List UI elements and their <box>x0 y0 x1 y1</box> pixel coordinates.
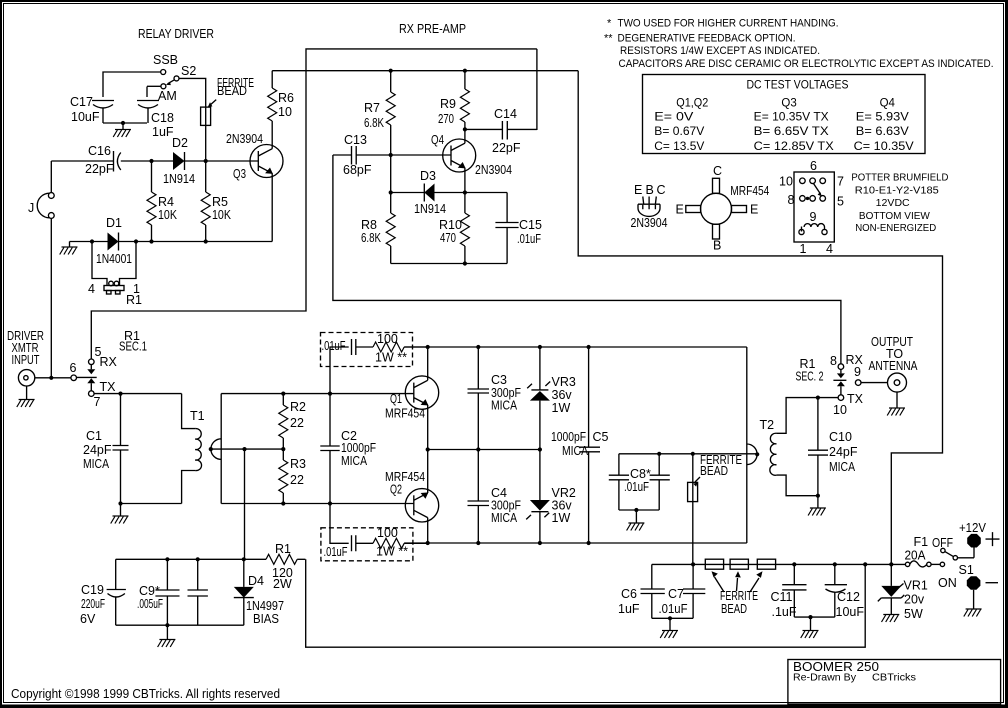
svg-text:2W: 2W <box>273 577 292 591</box>
svg-text:R9: R9 <box>440 97 456 111</box>
svg-text:2N3904: 2N3904 <box>475 163 512 177</box>
svg-text:B= 6.63V: B= 6.63V <box>856 126 909 138</box>
jack J <box>28 193 54 219</box>
svg-text:D3: D3 <box>420 169 436 183</box>
diode D3 1N914 <box>389 169 508 216</box>
wire input to pin 6 <box>35 376 71 380</box>
bias feed wire to power rail <box>306 559 866 647</box>
svg-text:Q1,Q2: Q1,Q2 <box>676 98 708 110</box>
svg-text:20A: 20A <box>905 549 927 563</box>
svg-text:1000pF: 1000pF <box>551 430 586 444</box>
svg-text:RX PRE-AMP: RX PRE-AMP <box>399 22 466 36</box>
svg-text:36v: 36v <box>552 388 573 402</box>
wire C17/C18 to ground <box>103 121 147 130</box>
svg-text:E: E <box>634 183 642 197</box>
svg-text:100: 100 <box>377 332 398 346</box>
svg-text:MICA: MICA <box>341 454 368 468</box>
zener VR2 36v 1W <box>526 450 576 544</box>
zener VR3 36v 1W <box>527 347 576 450</box>
power rail <box>652 562 906 566</box>
svg-text:R8: R8 <box>361 218 377 232</box>
wire C14 up the right edge <box>536 49 538 130</box>
svg-text:AM: AM <box>158 89 177 103</box>
svg-text:+12V: +12V <box>959 521 987 535</box>
wire RX box top and left to relay pin 5 <box>91 49 537 359</box>
svg-text:S2: S2 <box>181 64 196 78</box>
svg-text:6: 6 <box>810 159 817 173</box>
capacitor C2 1000pF MICA <box>320 394 376 504</box>
svg-text:6.8K: 6.8K <box>361 231 382 245</box>
svg-text:Q4: Q4 <box>431 133 444 147</box>
svg-text:22pF: 22pF <box>85 162 114 176</box>
bias bottom wire <box>116 623 244 639</box>
svg-text:C: C <box>657 183 666 197</box>
resistor R10 470 <box>439 193 469 264</box>
capacitor C3 300pF MICA <box>468 347 522 450</box>
svg-text:C18: C18 <box>151 111 174 125</box>
relay pinout box (Potter Brumfield bottom view) <box>779 159 844 256</box>
svg-text:BEAD: BEAD <box>700 464 728 478</box>
svg-text:.01uF: .01uF <box>322 339 346 353</box>
capacitor C9 second (unlabeled) <box>188 559 208 625</box>
svg-text:MICA: MICA <box>491 399 518 413</box>
capacitor C4 300pF MICA <box>468 450 522 544</box>
svg-text:100: 100 <box>377 526 398 540</box>
svg-text:C7: C7 <box>668 587 684 601</box>
svg-text:R5: R5 <box>212 195 228 209</box>
svg-text:C1: C1 <box>86 429 102 443</box>
svg-text:*: * <box>607 18 612 30</box>
svg-text:MICA: MICA <box>829 460 856 474</box>
svg-text:1N914: 1N914 <box>163 172 195 186</box>
ground (minus terminal) <box>964 609 982 617</box>
svg-text:20v: 20v <box>904 593 925 607</box>
svg-text:1N4997: 1N4997 <box>246 599 284 613</box>
table header row <box>676 98 895 110</box>
svg-text:C: C <box>713 164 722 178</box>
collector rail (top) <box>404 345 747 349</box>
svg-text:220uF: 220uF <box>81 597 105 611</box>
relay R1 SEC.1 contacts <box>70 329 148 409</box>
wire C16 left to jack J <box>51 161 113 193</box>
bias feed wire T1 tap down to bias network <box>244 449 246 559</box>
svg-text:E= 0V: E= 0V <box>654 112 693 124</box>
capacitor C12 10uF <box>825 564 865 619</box>
svg-text:VR1: VR1 <box>904 579 928 593</box>
svg-text:C16: C16 <box>88 144 111 158</box>
svg-text:R3: R3 <box>290 457 306 471</box>
svg-text:24pF: 24pF <box>829 445 858 459</box>
svg-text:MICA: MICA <box>491 511 518 525</box>
svg-text:T2: T2 <box>760 418 775 432</box>
resistor R5 10K <box>201 161 231 242</box>
svg-text:D4: D4 <box>248 574 264 588</box>
svg-text:470: 470 <box>440 231 456 245</box>
ferrite bead FB2 <box>688 453 742 564</box>
svg-text:TWO USED FOR HIGHER CURRENT HA: TWO USED FOR HIGHER CURRENT HANDING. <box>618 18 839 30</box>
wire C1 bottom / ground <box>118 501 181 516</box>
svg-text:FERRITE: FERRITE <box>720 589 758 603</box>
svg-text:C10: C10 <box>829 430 852 444</box>
wire jack down to input line <box>50 219 52 378</box>
svg-text:R6: R6 <box>278 91 294 105</box>
svg-text:C= 12.85V TX: C= 12.85V TX <box>754 141 834 153</box>
wire C16 to D2 <box>121 159 173 163</box>
svg-text:R1: R1 <box>275 542 291 556</box>
svg-text:10: 10 <box>278 105 292 119</box>
diode D4 1N4997 BIAS <box>234 559 284 626</box>
svg-text:C5: C5 <box>593 430 609 444</box>
ground (driver left) <box>60 242 78 255</box>
svg-text:MICA: MICA <box>83 457 110 471</box>
svg-text:C11: C11 <box>771 590 793 604</box>
transformer T1 <box>182 394 222 504</box>
svg-text:1W: 1W <box>552 401 571 415</box>
ferrite beads FB3 FB4 FB5 <box>705 559 775 616</box>
svg-text:MRF454: MRF454 <box>385 407 425 421</box>
svg-text:4: 4 <box>88 282 95 296</box>
emitter rail (middle) <box>426 447 542 451</box>
capacitor C1 24pF MICA <box>83 394 129 504</box>
svg-text:Re-Drawn By: Re-Drawn By <box>793 673 856 684</box>
svg-text:5W: 5W <box>904 607 923 621</box>
svg-text:6.8K: 6.8K <box>364 116 385 130</box>
resistor R8 6.8K <box>361 193 395 264</box>
svg-text:22pF: 22pF <box>492 141 521 155</box>
svg-text:.1uF: .1uF <box>772 605 797 619</box>
svg-text:1N4001: 1N4001 <box>96 252 132 266</box>
svg-text:BOTTOM VIEW: BOTTOM VIEW <box>859 211 931 222</box>
ground (VR1) <box>882 615 900 623</box>
ground (bias) <box>158 640 176 648</box>
svg-text:RELAY DRIVER: RELAY DRIVER <box>138 27 214 41</box>
table row E <box>654 112 909 124</box>
capacitor C11 .1uF <box>771 564 807 619</box>
svg-text:ON: ON <box>938 576 957 590</box>
svg-text:6: 6 <box>70 361 77 375</box>
wire SSB to C17 <box>103 72 161 97</box>
relay coil R1 (pins 4,1) <box>88 242 142 308</box>
svg-text:DEGENERATIVE FEEDBACK OPTION.: DEGENERATIVE FEEDBACK OPTION. <box>618 32 796 44</box>
capacitor C18 <box>137 86 174 139</box>
table box <box>643 75 926 154</box>
svg-text:SSB: SSB <box>153 53 178 67</box>
wire C6/C7 bottom to ground <box>652 616 693 630</box>
svg-text:2N3904: 2N3904 <box>226 132 263 146</box>
table row B <box>654 126 909 138</box>
svg-text:1W: 1W <box>552 511 571 525</box>
+12V terminal <box>959 521 1000 548</box>
svg-text:MICA: MICA <box>562 444 589 458</box>
svg-text:8: 8 <box>830 354 837 368</box>
resistor R9 270 <box>438 71 469 132</box>
svg-text:1uF: 1uF <box>152 125 174 139</box>
svg-text:7: 7 <box>837 175 844 189</box>
svg-text:B: B <box>713 239 721 253</box>
ground (C6/C7) <box>660 631 678 639</box>
svg-text:B: B <box>646 183 654 197</box>
svg-text:.01uF: .01uF <box>324 545 348 559</box>
ground (input connector) <box>17 400 35 408</box>
svg-text:Q3: Q3 <box>233 167 246 181</box>
svg-text:68pF: 68pF <box>343 163 372 177</box>
svg-text:C12: C12 <box>837 590 860 604</box>
svg-text:10: 10 <box>833 403 847 417</box>
resistor R3 22 <box>279 449 306 503</box>
svg-text:24pF: 24pF <box>83 443 112 457</box>
svg-text:4: 4 <box>826 242 833 256</box>
supply rail y=70.7 <box>272 69 578 73</box>
svg-text:E= 10.35V TX: E= 10.35V TX <box>754 112 829 124</box>
svg-text:B= 6.65V TX: B= 6.65V TX <box>754 126 829 138</box>
svg-text:Q2: Q2 <box>390 483 402 497</box>
svg-text:22: 22 <box>290 473 304 487</box>
svg-text:E= 5.93V: E= 5.93V <box>856 112 909 124</box>
svg-text:10K: 10K <box>212 208 232 222</box>
wire D2 to Q3 base <box>185 159 259 163</box>
relay R1 SEC.2 contacts <box>796 353 864 417</box>
resistor R7 6.8K <box>364 71 395 155</box>
table row C <box>654 141 914 153</box>
capacitor C15 .01uF <box>495 193 542 264</box>
antenna connector OUTPUT TO ANTENNA <box>869 335 919 408</box>
svg-text:6V: 6V <box>80 612 96 626</box>
ground (C8) <box>627 523 645 531</box>
wire ground to D1 <box>70 239 108 243</box>
svg-text:10K: 10K <box>158 208 178 222</box>
capacitor C13 68pF <box>333 133 451 177</box>
svg-text:R10-E1-Y2-V185: R10-E1-Y2-V185 <box>855 186 939 197</box>
dashed box RC network 2 (.01uF + 100 1W**) <box>321 504 428 561</box>
svg-text:B= 0.67V: B= 0.67V <box>654 126 704 138</box>
2N3904 pinout (bottom view) <box>631 183 668 230</box>
input connector DRIVER XMTR INPUT <box>7 329 44 400</box>
svg-text:F1: F1 <box>914 535 929 549</box>
svg-text:R2: R2 <box>290 400 306 414</box>
Q1 base rail <box>221 392 414 396</box>
switch S1 OFF/ON <box>932 536 974 590</box>
svg-text:OFF: OFF <box>932 536 953 550</box>
svg-text:INPUT: INPUT <box>12 353 40 367</box>
svg-text:RX: RX <box>100 355 118 369</box>
transistor Q2 MRF454 <box>385 450 439 544</box>
fuse F1 20A <box>905 535 945 567</box>
TX wire pin7 to T1 <box>94 392 182 396</box>
svg-text:9: 9 <box>854 365 861 379</box>
transistor Q1 MRF454 <box>385 347 439 450</box>
+12V feed wire from supply rail to power rail <box>578 71 942 565</box>
svg-text:1000pF: 1000pF <box>341 441 376 455</box>
capacitor C5 1000pF MICA <box>551 347 609 543</box>
svg-text:NON-ENERGIZED: NON-ENERGIZED <box>855 223 936 234</box>
svg-text:R4: R4 <box>158 195 174 209</box>
svg-text:12VDC: 12VDC <box>876 198 910 209</box>
svg-text:22: 22 <box>290 416 304 430</box>
svg-text:1W **: 1W ** <box>375 351 407 365</box>
capacitor C14 22pF <box>465 107 537 155</box>
svg-text:.01uF: .01uF <box>659 602 688 616</box>
svg-text:C8*: C8* <box>630 467 651 481</box>
svg-text:7: 7 <box>94 395 101 409</box>
svg-text:C17: C17 <box>70 95 93 109</box>
capacitor C10 24pF MICA <box>808 398 858 496</box>
ground (antenna) <box>887 408 905 416</box>
svg-text:1W **: 1W ** <box>376 545 408 559</box>
minus terminal <box>967 576 998 609</box>
svg-text:D1: D1 <box>106 216 122 230</box>
wire C11/C12 bottom to ground <box>794 615 835 631</box>
svg-text:10uF: 10uF <box>836 605 865 619</box>
svg-text:Q1: Q1 <box>390 392 402 406</box>
transistor Q3 2N3904 <box>226 121 283 242</box>
svg-text:Q3: Q3 <box>781 98 796 110</box>
svg-text:270: 270 <box>438 112 454 126</box>
svg-text:CBTricks: CBTricks <box>872 673 916 684</box>
svg-text:E: E <box>750 203 758 217</box>
svg-text:C6: C6 <box>621 587 637 601</box>
ground (C11/C12) <box>801 631 819 639</box>
Q2 base rail <box>221 501 414 505</box>
svg-text:C9*: C9* <box>139 584 160 598</box>
svg-text:1uF: 1uF <box>618 602 640 616</box>
capacitor C9* .005uF <box>137 559 180 625</box>
diode D1 1N4001 <box>96 216 132 266</box>
collector rail (bottom) <box>404 541 747 545</box>
svg-text:10uF: 10uF <box>71 110 100 124</box>
ferrite bead FB1 <box>201 76 254 125</box>
capacitor C17 <box>70 95 114 124</box>
transformer T2 <box>747 347 838 543</box>
ground (T2/C10) <box>808 496 826 516</box>
diode D2 1N914 <box>163 136 195 186</box>
resistor R4 10K <box>147 161 178 242</box>
wire R7 junction down to D3 line <box>390 155 392 193</box>
svg-text:VR3: VR3 <box>552 375 576 389</box>
svg-text:Q4: Q4 <box>880 98 896 110</box>
wire pin9 to antenna connector <box>861 382 888 384</box>
svg-text:**: ** <box>604 32 613 44</box>
zener VR1 20v 5W <box>878 564 928 621</box>
svg-text:5: 5 <box>837 195 844 209</box>
transistor Q4 2N3904 <box>431 129 512 192</box>
resistor R6 10 <box>268 71 294 121</box>
svg-text:C15: C15 <box>519 218 542 232</box>
svg-text:10: 10 <box>779 175 793 189</box>
svg-text:1: 1 <box>800 242 807 256</box>
wire S2 pivot to ferrite bead <box>179 78 206 106</box>
svg-text:POTTER BRUMFIELD: POTTER BRUMFIELD <box>851 173 948 184</box>
svg-text:R10: R10 <box>439 218 462 232</box>
svg-text:TX: TX <box>100 380 117 394</box>
svg-text:BEAD: BEAD <box>721 602 747 616</box>
T1 tap wire to bias / R2R3 <box>211 447 286 451</box>
svg-text:CAPACITORS ARE DISC CERAMIC OR: CAPACITORS ARE DISC CERAMIC OR ELECTROLY… <box>619 58 994 70</box>
bias top rail <box>116 557 266 561</box>
svg-text:.01uF: .01uF <box>517 232 541 246</box>
T2 feed wire (C8 to T2 arc) <box>619 452 757 456</box>
resistor R1 120 2W <box>266 542 305 591</box>
svg-text:RESISTORS 1/4W EXCEPT AS INDIC: RESISTORS 1/4W EXCEPT AS INDICATED. <box>620 45 820 57</box>
svg-text:SEC. 2: SEC. 2 <box>796 370 824 384</box>
switch S2 <box>153 53 196 103</box>
MRF454 pinout <box>676 164 770 253</box>
svg-text:J: J <box>28 201 34 215</box>
capacitor C19 220uF 6V <box>80 559 126 626</box>
ground (C1) <box>111 516 129 524</box>
svg-text:C19: C19 <box>81 583 104 597</box>
svg-text:SEC.1: SEC.1 <box>119 340 147 354</box>
svg-text:S1: S1 <box>959 563 974 577</box>
svg-text:Copyright ©1998 1999 CBT: Copyright ©1998 1999 CBTricks. All right… <box>11 687 280 701</box>
svg-text:R7: R7 <box>364 101 380 115</box>
svg-text:1N914: 1N914 <box>414 202 446 216</box>
svg-text:C= 13.5V: C= 13.5V <box>654 141 704 153</box>
svg-text:E: E <box>676 203 684 217</box>
svg-text:TX: TX <box>847 392 864 406</box>
svg-text:2N3904: 2N3904 <box>631 216 668 230</box>
svg-text:.005uF: .005uF <box>137 597 163 611</box>
svg-text:DC TEST VOLTAGES: DC TEST VOLTAGES <box>747 80 849 92</box>
svg-text:T1: T1 <box>190 409 205 423</box>
preamp bottom wire <box>391 261 507 265</box>
capacitor C6 1uF <box>618 564 665 618</box>
svg-text:C13: C13 <box>344 133 367 147</box>
svg-text:D2: D2 <box>172 136 188 150</box>
svg-text:C14: C14 <box>494 107 517 121</box>
relay pinout text <box>851 173 948 235</box>
dashed box RC network 1 (.01uF + 100 1W**) <box>321 332 428 394</box>
svg-text:C3: C3 <box>491 373 507 387</box>
svg-text:C= 10.35V: C= 10.35V <box>854 141 914 153</box>
svg-text:R1: R1 <box>126 293 142 307</box>
svg-text:.01uF: .01uF <box>624 480 649 494</box>
svg-text:9: 9 <box>810 210 817 224</box>
resistor R2 22 <box>279 394 306 450</box>
ground (C17/C18) <box>113 130 131 138</box>
capacitor C8* (two in parallel) <box>609 454 670 523</box>
svg-text:ANTENNA: ANTENNA <box>869 359 919 373</box>
capacitor C16 <box>85 144 121 176</box>
RX input wire from C13 to relay pin 8 <box>333 155 841 364</box>
wire bead to main node <box>205 107 207 162</box>
capacitor C7 .01uF <box>659 564 706 618</box>
svg-text:BIAS: BIAS <box>253 612 279 626</box>
wire D1 to Q3 emitter (driver bottom rail) <box>119 239 273 243</box>
svg-text:MRF454: MRF454 <box>730 184 769 198</box>
svg-text:BEAD: BEAD <box>217 84 247 98</box>
svg-text:8: 8 <box>788 193 795 207</box>
